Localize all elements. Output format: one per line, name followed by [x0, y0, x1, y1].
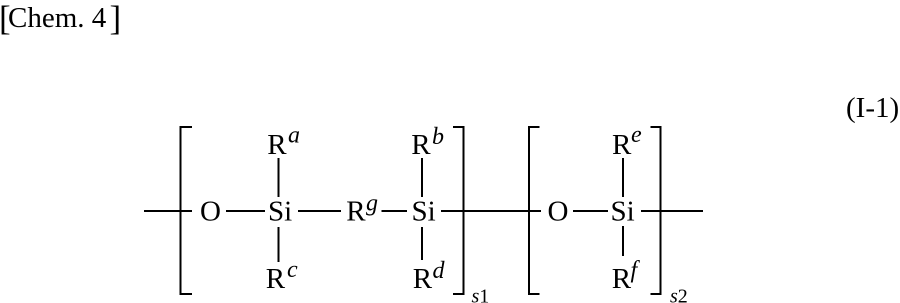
group Rg — [346, 191, 378, 228]
bracket right s2 — [651, 127, 661, 294]
svg-text:f: f — [631, 258, 641, 284]
svg-text:a: a — [288, 123, 300, 149]
svg-text:Si: Si — [268, 196, 292, 228]
svg-text:Si: Si — [412, 196, 436, 228]
svg-text:Si: Si — [611, 196, 635, 228]
subscript s2 — [670, 286, 688, 303]
wire Si2 to O2 crossing brackets — [441, 210, 541, 212]
svg-text:]: ] — [110, 0, 122, 38]
bond O1-Si1 — [226, 210, 265, 212]
group Rb — [411, 124, 444, 161]
bracket left s2 — [529, 127, 540, 294]
svg-text:(I-1): (I-1) — [846, 92, 899, 124]
label [Chem. 4] — [0, 0, 121, 38]
group Ra — [267, 123, 300, 162]
bracket left s1 — [181, 127, 193, 294]
bond Rg-Si2 — [382, 210, 408, 212]
svg-text:R: R — [346, 196, 366, 228]
bond O2-Si3 — [573, 210, 608, 212]
wire Si3 through bracket right stub — [641, 210, 703, 212]
bond Si1-Rg — [298, 210, 341, 212]
group Rd — [413, 258, 446, 295]
bracket right s1 — [453, 127, 464, 294]
svg-text:e: e — [631, 122, 642, 148]
svg-text:g: g — [366, 191, 378, 217]
wire left stub — [144, 210, 192, 212]
svg-text:s: s — [670, 286, 678, 303]
svg-text:R: R — [612, 129, 632, 161]
svg-text:O: O — [200, 196, 221, 228]
svg-text:b: b — [432, 124, 444, 150]
svg-text:1: 1 — [479, 286, 489, 303]
group Re — [612, 122, 642, 161]
svg-text:R: R — [266, 263, 286, 295]
bond Si1-Rc — [278, 227, 280, 262]
svg-text:O: O — [548, 196, 569, 228]
group Rf — [612, 258, 641, 296]
bond Si3-Rf — [622, 226, 624, 256]
bond Si1-Ra — [278, 158, 280, 197]
svg-text:R: R — [413, 263, 433, 295]
svg-text:c: c — [287, 257, 298, 283]
svg-text:d: d — [433, 258, 446, 284]
bond Si3-Re — [622, 158, 624, 197]
svg-text:R: R — [612, 263, 632, 295]
bond Si2-Rd — [421, 227, 423, 260]
svg-text:s: s — [472, 286, 480, 303]
bond Si2-Rb — [421, 158, 423, 197]
svg-text:2: 2 — [678, 286, 688, 303]
group Rc — [266, 257, 298, 295]
svg-text:R: R — [267, 129, 287, 161]
svg-text:Chem. 4: Chem. 4 — [8, 2, 107, 34]
subscript s1 — [472, 286, 490, 303]
svg-text:R: R — [411, 129, 431, 161]
